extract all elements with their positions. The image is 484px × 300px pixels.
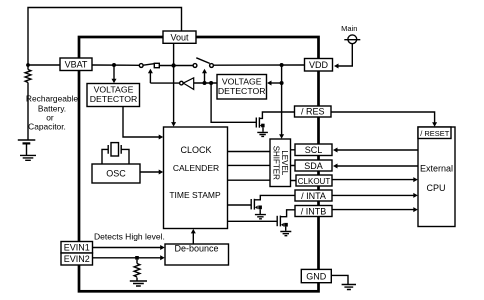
svg-text:Vout: Vout bbox=[170, 32, 189, 42]
svg-text:CPU: CPU bbox=[426, 183, 445, 193]
svg-text:VDD: VDD bbox=[309, 60, 329, 70]
svg-text:VOLTAGE: VOLTAGE bbox=[94, 85, 134, 95]
svg-text:VBAT: VBAT bbox=[65, 60, 88, 70]
svg-text:OSC: OSC bbox=[106, 169, 126, 179]
svg-text:Rechargeable: Rechargeable bbox=[26, 94, 78, 104]
svg-text:VOLTAGE: VOLTAGE bbox=[222, 77, 262, 87]
svg-text:SCL: SCL bbox=[305, 145, 323, 155]
svg-text:De-bounce: De-bounce bbox=[174, 244, 218, 254]
svg-text:/ INTB: / INTB bbox=[301, 206, 327, 216]
svg-text:GND: GND bbox=[306, 272, 327, 282]
svg-text:TIME STAMP: TIME STAMP bbox=[169, 190, 221, 200]
svg-text:Detects High level.: Detects High level. bbox=[94, 232, 165, 242]
svg-text:External: External bbox=[420, 164, 453, 174]
svg-text:Capacitor.: Capacitor. bbox=[28, 122, 66, 132]
svg-text:EVIN2: EVIN2 bbox=[64, 254, 90, 264]
svg-text:Main: Main bbox=[341, 24, 357, 33]
svg-text:/ RESET: / RESET bbox=[420, 129, 450, 138]
svg-text:CALENDER: CALENDER bbox=[173, 163, 219, 173]
svg-text:CLKOUT: CLKOUT bbox=[298, 177, 331, 186]
svg-text:SDA: SDA bbox=[304, 161, 323, 171]
svg-text:DETECTOR: DETECTOR bbox=[218, 86, 266, 96]
svg-text:EVIN1: EVIN1 bbox=[64, 243, 90, 253]
svg-text:/ INTA: / INTA bbox=[301, 191, 326, 201]
svg-text:SHIFTER: SHIFTER bbox=[271, 146, 280, 180]
svg-text:/ RES: / RES bbox=[301, 107, 325, 117]
svg-text:DETECTOR: DETECTOR bbox=[90, 94, 138, 104]
svg-text:CLOCK: CLOCK bbox=[180, 145, 211, 155]
